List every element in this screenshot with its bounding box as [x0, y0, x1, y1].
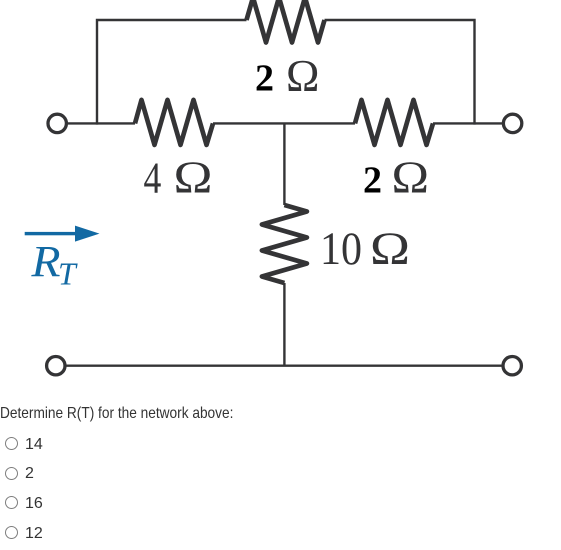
label 10ohm: omega	[370, 223, 410, 275]
wire middle row right	[433, 122, 513, 124]
option label 14	[25, 436, 43, 454]
arrow RT	[25, 226, 100, 242]
label 10ohm: digits 10	[320, 223, 362, 275]
label 4ohm: digit 4	[144, 154, 162, 203]
resistor 2ohm right zigzag	[355, 100, 433, 145]
resistor 2ohm top zigzag	[247, 0, 325, 43]
svg-text:4: 4	[144, 154, 162, 203]
resistor 10ohm vertical zigzag	[262, 205, 307, 283]
option radio 14	[5, 437, 18, 450]
label 2ohm right: bold 2	[363, 159, 382, 201]
svg-text:Ω: Ω	[174, 153, 213, 203]
label 2ohm top: bold 2	[255, 58, 274, 100]
terminal left middle	[48, 114, 66, 132]
wire top-right segment with corner	[325, 20, 475, 125]
question text	[0, 405, 233, 423]
label 2ohm right: omega	[392, 152, 430, 202]
svg-text:Ω: Ω	[392, 152, 430, 202]
wire bottom	[57, 365, 513, 367]
svg-text:2: 2	[363, 159, 382, 201]
svg-text:Ω: Ω	[286, 51, 319, 101]
resistor 4ohm zigzag	[135, 100, 213, 145]
terminal left bottom	[47, 357, 65, 375]
wire top-left segment with corner	[97, 20, 247, 125]
svg-text:10: 10	[320, 223, 362, 275]
svg-text:2: 2	[255, 58, 274, 100]
option label 12	[25, 525, 43, 543]
option radio 2	[5, 467, 18, 480]
svg-text:R: R	[30, 237, 60, 286]
option label 16	[25, 495, 43, 513]
label 4ohm: omega	[174, 153, 213, 203]
option radio 16	[5, 496, 18, 509]
label 2ohm top: omega	[286, 51, 319, 101]
terminal right middle	[503, 114, 521, 132]
label RT: subscript T	[58, 256, 78, 292]
option label 2	[25, 465, 34, 483]
wire center vertical lower	[283, 283, 285, 366]
wire center vertical upper	[283, 123, 285, 205]
wire middle row left	[57, 122, 135, 124]
svg-text:Ω: Ω	[370, 223, 410, 275]
option radio 12	[5, 526, 18, 539]
svg-text:T: T	[58, 256, 78, 292]
terminal right bottom	[503, 357, 521, 375]
label RT: italic R	[30, 237, 60, 286]
wire middle row center	[213, 122, 355, 124]
